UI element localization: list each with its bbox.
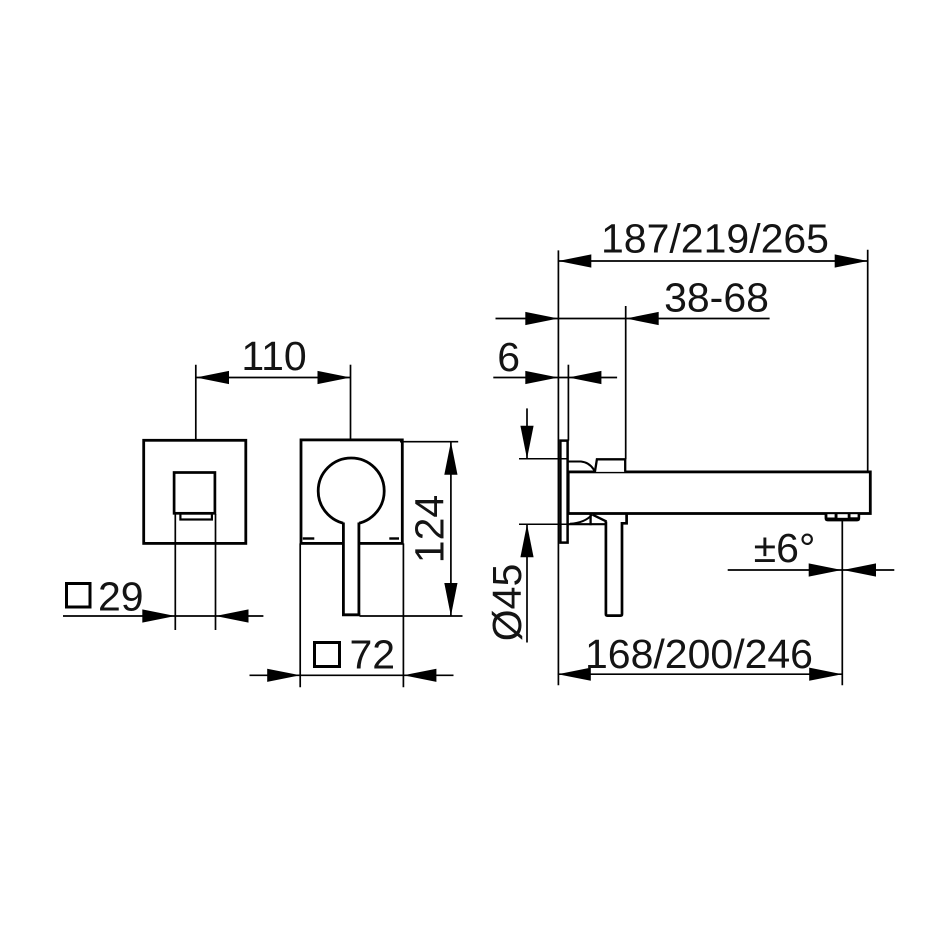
svg-text:168/200/246: 168/200/246	[585, 631, 813, 677]
svg-text:110: 110	[241, 333, 306, 379]
svg-text:29: 29	[98, 574, 144, 620]
svg-text:38-68: 38-68	[664, 275, 769, 321]
svg-text:124: 124	[407, 495, 453, 563]
svg-text:Ø45: Ø45	[484, 564, 530, 642]
svg-text:±6°: ±6°	[754, 525, 816, 571]
svg-text:72: 72	[350, 632, 396, 678]
svg-text:187/219/265: 187/219/265	[601, 216, 829, 262]
svg-text:6: 6	[497, 334, 520, 380]
